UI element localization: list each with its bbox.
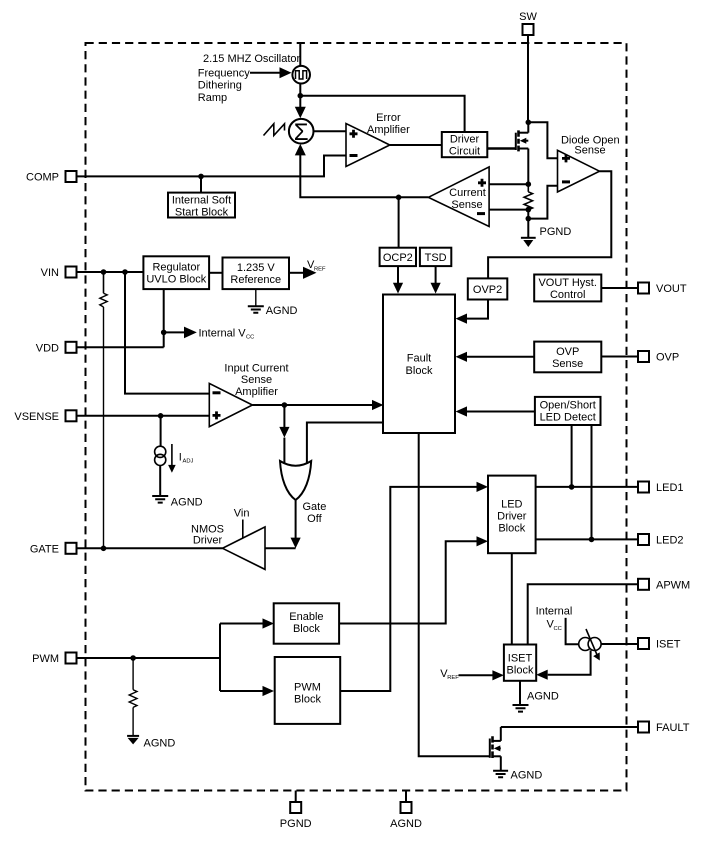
wire COMP to error amp - input	[77, 156, 347, 177]
svg-text:ISET: ISET	[656, 639, 681, 651]
block OCP2	[380, 248, 416, 266]
node LED1 detect tap	[569, 484, 575, 490]
arrow open/short into fault block	[456, 406, 535, 416]
pin ISET	[638, 638, 681, 651]
svg-text:REF: REF	[314, 266, 326, 272]
node pgnd junction	[526, 216, 532, 222]
svg-text:OVP: OVP	[556, 346, 579, 358]
svg-text:Block: Block	[293, 623, 320, 635]
arrow VREF into ISET block	[440, 668, 504, 681]
wire error amp output to driver circuit	[390, 144, 442, 146]
pin AGND bottom	[390, 791, 422, 831]
svg-text:Control: Control	[550, 289, 585, 301]
wire input amp output to fault block	[252, 400, 383, 410]
svg-text:Block: Block	[406, 365, 433, 377]
svg-text:Sense: Sense	[451, 199, 482, 211]
pin GATE	[30, 543, 77, 556]
label Input Current Sense Amplifier	[224, 363, 288, 399]
svg-text:COMP: COMP	[26, 171, 59, 183]
label Internal Vcc iset	[536, 606, 573, 632]
pin PWM	[32, 653, 76, 666]
arrow into pwm block	[220, 686, 274, 696]
wire VIN to regulator	[77, 271, 144, 273]
op-amp input current sense amplifier	[209, 383, 252, 426]
svg-text:Amplifier: Amplifier	[367, 124, 410, 136]
wire resistor bottom to pgnd node	[527, 210, 529, 219]
svg-text:Driver: Driver	[193, 534, 223, 546]
wire VIN branch to input sense amp - input	[125, 272, 209, 394]
svg-text:PWM: PWM	[32, 653, 59, 665]
arrow Internal Vcc	[164, 327, 255, 341]
svg-text:VOUT: VOUT	[656, 283, 687, 295]
wire open/short to LED2 line	[591, 425, 593, 539]
pin APWM	[638, 579, 690, 592]
wire OCP2 stub	[398, 197, 400, 247]
ground AGND iadj	[152, 496, 202, 509]
svg-text:AGND: AGND	[266, 305, 298, 317]
wire current sense output to summer	[295, 144, 429, 197]
op-amp NMOS driver (left pointing)	[223, 527, 266, 570]
svg-text:VSENSE: VSENSE	[14, 411, 59, 423]
wire pwm block to LED driver upper input	[340, 482, 488, 691]
svg-text:PWM: PWM	[294, 682, 321, 694]
oscillator U1 circle with square-wave glyph	[292, 66, 310, 84]
wire GATE pin to driver output	[77, 547, 223, 549]
arrow amp output into OR gate	[279, 405, 289, 467]
svg-text:Fault: Fault	[407, 353, 431, 365]
arrow current source into ISET block	[536, 650, 590, 679]
svg-text:VIN: VIN	[41, 267, 59, 279]
svg-text:CC: CC	[554, 626, 562, 632]
label NMOS Driver	[191, 523, 224, 546]
block OVP2	[468, 278, 508, 299]
svg-text:PGND: PGND	[540, 226, 572, 238]
block Regulator UVLO	[143, 256, 209, 289]
svg-text:1.235 V: 1.235 V	[237, 262, 276, 274]
wire current source to ISET pin	[601, 643, 638, 645]
block TSD	[420, 248, 451, 266]
arrow into enable block	[220, 618, 274, 628]
node VIN resistor tap	[101, 269, 107, 275]
node LED2 detect tap	[589, 537, 595, 543]
svg-text:Regulator: Regulator	[152, 261, 200, 273]
arrow TSD into fault block	[431, 266, 441, 293]
arrow OR output to gate driver	[265, 500, 301, 548]
node SW drain junction	[526, 120, 532, 126]
svg-text:OVP2: OVP2	[473, 284, 502, 296]
node COMP soft-start tap	[198, 174, 204, 180]
svg-text:Dithering: Dithering	[198, 80, 242, 92]
transistor Q1 power NMOS at SW	[516, 122, 529, 184]
svg-text:LED1: LED1	[656, 482, 684, 494]
arrow oscillator into summer	[295, 96, 306, 119]
svg-text:AGND: AGND	[511, 770, 543, 782]
label Diode Open Sense	[561, 135, 620, 157]
svg-text:Block: Block	[498, 523, 525, 535]
current source IADJ	[155, 416, 194, 496]
wire border to oscillator top	[299, 43, 301, 66]
label Error Amplifier	[367, 112, 410, 136]
wire LED1	[536, 486, 638, 488]
op-amp current sense (left pointing)	[428, 167, 489, 227]
svg-text:REF: REF	[447, 675, 459, 681]
wire VSENSE to input sense amp + input	[77, 415, 210, 417]
svg-text:AGND: AGND	[527, 691, 559, 703]
arrow OVP sense into fault block	[456, 352, 535, 362]
pin PGND bottom	[280, 791, 312, 831]
gate OR gate-off	[280, 461, 311, 500]
wire Vin supply to driver	[234, 507, 250, 537]
svg-text:Internal V: Internal V	[199, 327, 247, 339]
block ISET Block	[504, 645, 536, 681]
node PWM resistor tap	[130, 655, 136, 661]
resistor sense R at SW leg	[524, 184, 532, 210]
resistor PWM pulldown	[129, 658, 137, 736]
svg-text:Enable: Enable	[289, 611, 323, 623]
svg-text:Block: Block	[507, 665, 534, 677]
node oscillator output	[298, 93, 304, 99]
pin FAULT	[638, 722, 690, 735]
block Fault Block	[383, 295, 455, 434]
node GATE resistor junction	[101, 546, 107, 552]
wire regulator bottom to VDD	[163, 289, 165, 347]
svg-text:ADJ: ADJ	[183, 459, 194, 465]
block Open/Short LED Detect	[535, 397, 601, 425]
pin OVP	[638, 351, 679, 364]
ground AGND fault FET	[493, 770, 542, 782]
svg-text:CC: CC	[246, 335, 254, 341]
svg-text:GATE: GATE	[30, 543, 59, 555]
wire regulator to reference	[209, 272, 222, 274]
svg-text:Off: Off	[307, 513, 322, 525]
svg-text:AGND: AGND	[144, 738, 176, 750]
pin COMP	[26, 171, 77, 183]
svg-text:LED Detect: LED Detect	[540, 412, 596, 424]
block LED Driver Block	[488, 476, 536, 554]
wire LED2	[536, 538, 638, 540]
node current sense output OCP2 tap	[396, 195, 402, 201]
svg-text:Gate: Gate	[302, 501, 326, 513]
pin LED1	[638, 482, 684, 495]
ground AGND reference	[248, 289, 298, 317]
svg-text:Ramp: Ramp	[198, 92, 227, 104]
svg-text:Driver: Driver	[497, 511, 527, 523]
svg-text:ISET: ISET	[508, 653, 533, 665]
svg-text:Amplifier: Amplifier	[235, 386, 278, 398]
wire LED driver block to ISET block	[511, 553, 513, 644]
wire summer to error amp + input	[314, 130, 347, 132]
wire oscillator feedback to driver circuit top	[300, 96, 464, 132]
wire drain to diode-open-sense + input	[528, 122, 557, 158]
svg-text:Reference: Reference	[230, 274, 281, 286]
wire open/short to LED1 line	[571, 425, 573, 487]
svg-text:Block: Block	[294, 694, 321, 706]
node source sense top	[526, 181, 532, 187]
svg-text:OVP: OVP	[656, 352, 679, 364]
wire pgnd node to diode-open-sense - input	[528, 186, 557, 219]
svg-text:VDD: VDD	[36, 342, 59, 354]
resistor VIN to GATE leg	[100, 272, 107, 548]
svg-text:TSD: TSD	[425, 252, 447, 264]
wire diode open sense output to OVP2	[488, 171, 611, 278]
pin LED2	[638, 534, 684, 547]
block PWM Block	[275, 657, 341, 724]
pin SW	[519, 11, 537, 35]
wire VDD pin	[77, 346, 164, 348]
svg-text:PGND: PGND	[280, 818, 312, 830]
current source ISET	[566, 618, 602, 661]
svg-text:OCP2: OCP2	[383, 252, 413, 264]
svg-text:Driver: Driver	[450, 134, 480, 146]
svg-text:Sense: Sense	[552, 358, 583, 370]
op-amp diode open sense	[558, 150, 600, 192]
svg-text:SW: SW	[519, 11, 537, 23]
svg-text:2.15 MHZ Oscillator: 2.15 MHZ Oscillator	[203, 53, 301, 65]
block VOUT Hyst Control	[534, 275, 601, 302]
svg-text:LED2: LED2	[656, 535, 684, 547]
block 1.235 V Reference	[223, 258, 290, 290]
wire enable block to LED driver lower input	[339, 536, 488, 623]
svg-text:Sense: Sense	[574, 144, 605, 156]
transistor Q2 fault NMOS	[490, 727, 501, 770]
block OVP Sense	[534, 342, 601, 373]
svg-text:Error: Error	[376, 112, 401, 124]
arrow OVP2 into fault block	[456, 300, 489, 324]
summer U2 sigma circle	[289, 119, 314, 146]
wire VOUT hyst to VOUT pin	[601, 287, 638, 289]
wire soft-start stub	[200, 176, 202, 192]
pin VDD	[36, 342, 77, 355]
ground PGND internal	[521, 219, 571, 247]
wire current sense - input	[489, 209, 528, 211]
svg-text:Σ: Σ	[294, 119, 309, 146]
svg-text:Start Block: Start Block	[175, 206, 229, 218]
ground AGND iset	[513, 681, 559, 712]
svg-text:Internal Soft: Internal Soft	[172, 194, 231, 206]
svg-text:AGND: AGND	[171, 497, 203, 509]
wire fault block to fault FET gate	[419, 433, 490, 756]
wire oscillator bottom to node	[299, 84, 301, 96]
svg-text:I: I	[179, 451, 182, 463]
label Frequency Dithering Ramp	[198, 67, 250, 104]
wire fault FET drain to FAULT pin	[501, 726, 638, 728]
IC boundary dashed border	[86, 43, 627, 791]
svg-text:FAULT: FAULT	[656, 722, 690, 734]
block Internal Soft Start	[168, 193, 235, 219]
node sense resistor bottom	[526, 207, 532, 213]
arrow VREF output	[289, 259, 326, 279]
pin VIN	[41, 267, 77, 280]
label Gate Off	[302, 501, 326, 525]
wire APWM pin to ISET block	[528, 584, 638, 644]
arrow OCP2 into fault block	[393, 266, 403, 293]
node VIN sense-amp tap	[122, 269, 128, 275]
sawtooth ramp glyph	[264, 124, 285, 136]
svg-text:VOUT Hyst.: VOUT Hyst.	[538, 277, 596, 289]
wire SW pin to drain	[527, 35, 529, 122]
op-amp error amplifier	[346, 124, 390, 167]
ground AGND pwm resistor	[127, 736, 175, 750]
block Driver Circuit	[442, 132, 488, 158]
svg-text:Open/Short: Open/Short	[540, 400, 596, 412]
block Enable Block	[274, 603, 339, 643]
svg-text:Circuit: Circuit	[449, 146, 480, 158]
pin VSENSE	[14, 410, 76, 423]
svg-text:Internal: Internal	[536, 606, 573, 618]
wire driver circuit to power FET gate	[487, 147, 515, 150]
node amp output OR tap	[282, 402, 288, 408]
svg-text:AGND: AGND	[390, 818, 422, 830]
wire PWM pin	[77, 657, 221, 659]
node VSENSE iadj tap	[158, 413, 164, 419]
arrow frequency-dithering into oscillator	[250, 67, 292, 78]
wire current sense + input	[489, 183, 528, 185]
node internal vcc tap	[161, 330, 167, 336]
wire OVP sense to OVP pin	[601, 356, 638, 358]
svg-text:UVLO Block: UVLO Block	[146, 273, 206, 285]
svg-text:Vin: Vin	[234, 507, 250, 519]
svg-text:APWM: APWM	[656, 579, 690, 591]
svg-text:Frequency: Frequency	[198, 67, 250, 79]
wire fault block to OR gate right input	[307, 423, 383, 467]
svg-text:Current: Current	[449, 187, 486, 199]
svg-text:Sense: Sense	[241, 374, 272, 386]
pin VOUT	[638, 283, 687, 296]
svg-text:Input Current: Input Current	[224, 363, 288, 375]
svg-text:LED: LED	[501, 499, 522, 511]
wire PWM split vertical	[219, 658, 221, 691]
